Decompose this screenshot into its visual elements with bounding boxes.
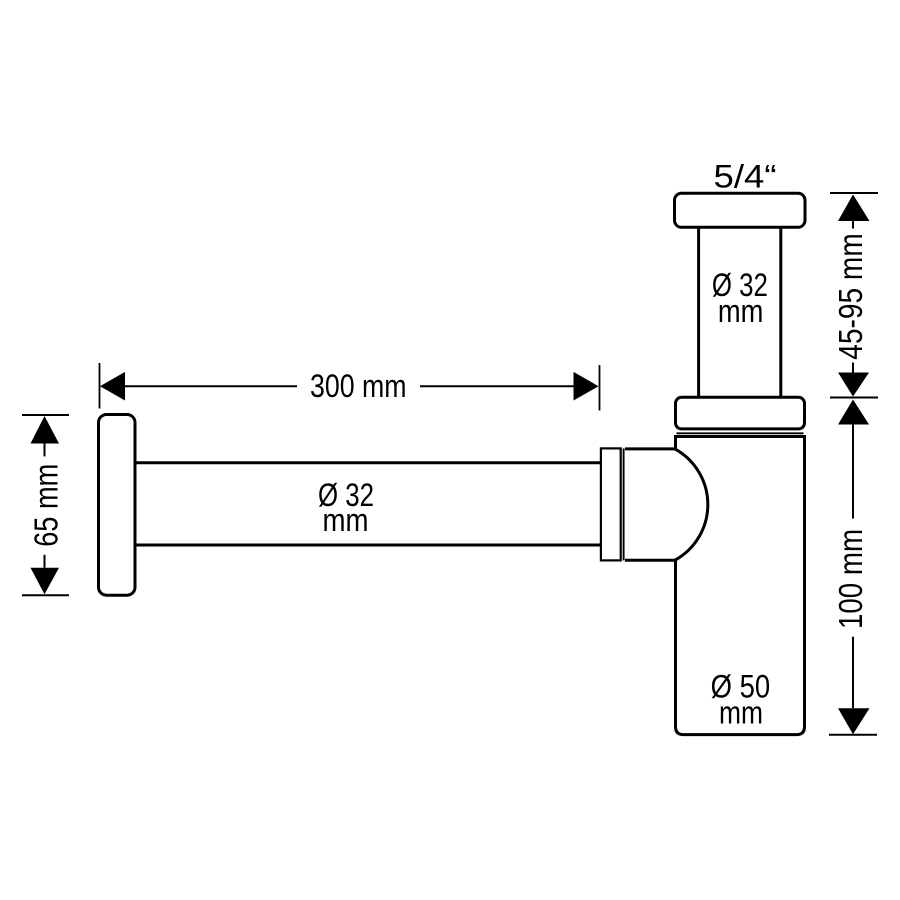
svg-text:mm: mm — [323, 502, 369, 538]
svg-text:mm: mm — [719, 695, 763, 731]
svg-text:65 mm: 65 mm — [28, 464, 65, 547]
svg-text:300 mm: 300 mm — [310, 368, 407, 404]
svg-text:100 mm: 100 mm — [833, 529, 870, 629]
svg-text:mm: mm — [718, 293, 764, 329]
svg-text:5/4“: 5/4“ — [714, 159, 777, 195]
svg-text:45-95 mm: 45-95 mm — [833, 233, 870, 360]
